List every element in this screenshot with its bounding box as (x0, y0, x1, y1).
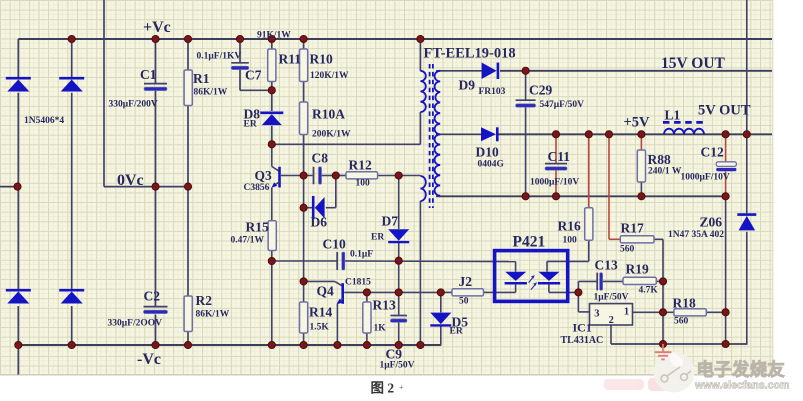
svg-text:C11: C11 (548, 149, 571, 164)
wire junction up to C13 row (577, 281, 579, 292)
wire junction down to IC1 ref pin (577, 292, 579, 312)
capacitor C29 547uF/50V (516, 99, 536, 101)
resistor R13 1K (363, 302, 371, 333)
wire P421 emitter lead (548, 285, 550, 293)
junction R15 / C10 row (268, 257, 275, 264)
svg-text:200K/1W: 200K/1W (312, 130, 351, 140)
junction top rail / transformer primary (417, 35, 424, 42)
diode D3 (1N5406) (6, 289, 31, 292)
junction top rail / R10 (300, 35, 307, 42)
capacitor C2 330uF/200V (144, 306, 168, 308)
svg-text:100: 100 (356, 179, 371, 189)
svg-text:5V OUT: 5V OUT (698, 103, 751, 119)
wire top rail to primary winding top (419, 39, 421, 71)
resistor R2 86K/1W (184, 296, 192, 332)
diode D4 (1N5406) (59, 289, 84, 292)
wire R17 to right vertical (654, 238, 663, 240)
wire D2 anode to D4 cathode (71, 93, 73, 290)
junction ground rail / right column (722, 340, 729, 347)
svg-text:C10: C10 (323, 237, 346, 252)
junction C7 / R11 bottom (268, 87, 275, 94)
junction R19 / right vertical (659, 278, 666, 285)
wire C2 to bottom rail (155, 315, 157, 346)
wire J2 row to C9 (398, 292, 400, 315)
resistor R19 4.7K (623, 277, 656, 284)
wire R1 to 0Vc (187, 106, 189, 187)
zener diode Z06 1N4735A (737, 213, 756, 216)
svg-text:R10A: R10A (312, 107, 345, 122)
svg-text:3: 3 (594, 308, 599, 319)
svg-text:IC1: IC1 (573, 321, 592, 335)
svg-text:560: 560 (674, 317, 689, 327)
svg-text:1000μF/10V: 1000μF/10V (681, 173, 730, 183)
wire R10 to R10A (303, 82, 305, 103)
svg-text:0.1μF: 0.1μF (350, 250, 373, 260)
IC U1 / IC1 TL431AC box (590, 304, 633, 325)
junction common rail / C12 (722, 193, 729, 200)
wire J2 to P421 (484, 291, 494, 293)
optocoupler P421 light arrows (529, 276, 534, 282)
capacitor C13 1uF/50V (596, 273, 598, 291)
wire to R18 (663, 311, 674, 313)
wire C10 row right to P421 LED anode (343, 260, 515, 263)
junction bottom rail / winding (417, 341, 424, 348)
svg-text:R16: R16 (558, 219, 581, 234)
capacitor C8 (313, 167, 315, 185)
wire C10 row junction to bottom rail (271, 261, 273, 345)
svg-text:C29: C29 (529, 83, 552, 98)
wire Q4 base from junction (304, 280, 335, 282)
junction bottom rail / C9 (395, 341, 402, 348)
wire R13 to bottom rail (366, 333, 368, 345)
wire R12 junction to D7 (398, 176, 400, 230)
wire R11 to D8 cathode (271, 82, 273, 112)
wire R16 bottom (588, 240, 590, 261)
wire D8 anode to node (271, 126, 273, 145)
junction bottom rail / Q4 emitter (334, 341, 341, 348)
junction common rail / C29 (522, 193, 529, 200)
svg-text:0Vc: 0Vc (117, 172, 144, 189)
svg-text:R2: R2 (196, 293, 213, 308)
svg-text:图 2: 图 2 (371, 381, 395, 396)
junction top rail / C7 (236, 35, 243, 42)
inductor L1 (663, 121, 706, 124)
svg-text:R15: R15 (246, 220, 269, 235)
wire R10A bottom through node row to Q3 base row (303, 135, 305, 176)
junction P421 out / C13 / IC1 (575, 289, 582, 296)
transformer T1 feedback winding (420, 176, 425, 201)
svg-text:ER: ER (244, 120, 257, 130)
junction +5V rail / C11 (552, 131, 559, 138)
wire 0Vc to C2 (155, 187, 157, 306)
resistor R10A 200K/1W (300, 102, 308, 135)
svg-text:C7: C7 (245, 68, 262, 83)
junction bottom rail / D1 column (15, 341, 22, 348)
capacitor C10 0.1uF (336, 252, 338, 270)
junction IC1 pin1 / R18 (659, 309, 666, 316)
svg-text:C1815: C1815 (345, 278, 371, 288)
wire D5 junction to J2 (441, 291, 452, 293)
wire to R13 top (366, 292, 368, 302)
wire +5V rail / 5V OUT line (498, 133, 772, 135)
svg-text:0404G: 0404G (478, 160, 505, 170)
wire P421 phototransistor collector lead (546, 261, 548, 271)
wire R16 to P421 phototransistor collector (547, 260, 589, 262)
junction bottom rail / R15 column (268, 341, 275, 348)
transformer T1 secondary windings (435, 71, 441, 196)
junction R18 / right column (722, 309, 729, 316)
junction top rail / R1 (184, 35, 191, 42)
wire to IC1 pin 3 (578, 311, 589, 313)
wire R19 to right vertical (656, 280, 663, 282)
diode D2 (1N5406) (59, 77, 84, 80)
wire junction to R12 (336, 175, 346, 177)
svg-text:1: 1 (624, 306, 629, 317)
wire top rail to R11 (271, 39, 273, 49)
wire C7 to R11 junction (239, 70, 241, 91)
svg-text:C12: C12 (701, 145, 724, 160)
wire R15 to C10 row (271, 251, 273, 262)
svg-text:P421: P421 (513, 234, 546, 251)
svg-text:1.5K: 1.5K (310, 323, 330, 333)
wire top rail to R1 (187, 39, 189, 70)
wire D1 anode to D3 cathode (17, 93, 19, 290)
wire C9 to bottom rail (398, 322, 400, 345)
diode D5 ER (430, 313, 451, 325)
wire R2 to bottom rail (187, 332, 189, 346)
wire P421 LED cathode lead (515, 285, 517, 293)
svg-text:R14: R14 (309, 305, 332, 320)
wire Q4 emitter to bottom rail (336, 304, 338, 346)
diode D8 ER (260, 112, 283, 115)
svg-text:R88: R88 (648, 152, 671, 167)
svg-text:1000μF/10V: 1000μF/10V (530, 178, 579, 188)
svg-text:50: 50 (459, 297, 469, 307)
svg-text:+: + (399, 383, 404, 392)
svg-text:TL431AC: TL431AC (561, 335, 604, 346)
wire +5V rail to C11 (red) (555, 134, 557, 163)
junction 0Vc / R1-R2 (184, 183, 191, 190)
resistor R17 560 (620, 236, 654, 243)
wire IC1 pin 2 to ground rail (610, 325, 612, 344)
diode D1 (1N5406) (6, 77, 31, 80)
wire R14 to bottom rail (303, 333, 305, 345)
junction ground rail / ground (659, 340, 666, 347)
diode D9 FR103 (482, 63, 497, 80)
junction AC stub / D1 column (14, 183, 21, 190)
wire D7 to C10 row (398, 243, 400, 261)
wire top rail to C1 (155, 39, 157, 83)
capacitor C12 1000uF/10V (716, 162, 736, 167)
svg-text:ER: ER (371, 233, 384, 243)
wire 0Vc to R2 (187, 187, 189, 296)
wire C11 to common rail (red) (555, 170, 557, 196)
wire C9 junction to D5 junction (399, 291, 441, 293)
svg-text:+5V: +5V (624, 115, 651, 131)
svg-text:C13: C13 (595, 258, 618, 273)
wire Q3 emitter to R15 (271, 188, 273, 221)
wire D8 node row to transformer primary bottom (272, 143, 421, 145)
junction top rail / D2 column (68, 35, 75, 42)
watermark pink smudge (604, 378, 674, 391)
capacitor C7 0.1uF/1KV (231, 62, 249, 64)
wire D4 anode to bottom rail (71, 306, 73, 345)
wire AC input stub at left edge (0, 186, 18, 188)
wire 5V OUT to C12 (red) (725, 134, 727, 161)
wire 0Vc vertical from top edge (103, 0, 105, 187)
junction 0Vc / C1-C2 (152, 183, 159, 190)
svg-text:C8: C8 (312, 151, 329, 166)
optocoupler P421 LED (505, 272, 526, 281)
wire D3 anode to bottom rail (17, 306, 19, 345)
wire Q4 collector to R13 junction (344, 291, 367, 293)
wire from top edge through rails to Z06 cathode (746, 0, 748, 213)
svg-text:R18: R18 (673, 296, 696, 311)
wire common rail down to R18 right and ground rail (725, 196, 727, 344)
svg-text:D6: D6 (311, 215, 328, 230)
svg-text:电子发烧友: 电子发烧友 (697, 360, 786, 380)
svg-text:R17: R17 (621, 221, 644, 236)
resistor R11 91K/1W (268, 49, 276, 82)
junction D8 anode node (268, 141, 275, 148)
wire Z06 anode to ground rail corner (746, 232, 748, 344)
wire feedback winding bottom to bottom rail (419, 201, 421, 345)
capacitor C9 1uF/50V (390, 315, 407, 317)
transistor Q4 C1815 (335, 282, 342, 286)
wire D5 to bottom rail corner (440, 326, 442, 345)
wire 15V OUT line (500, 70, 772, 72)
svg-text:0.47/1W: 0.47/1W (231, 236, 265, 246)
junction R12 / D7 / winding (395, 172, 402, 179)
wire node to Q3 collector (271, 144, 273, 166)
resistor R18 560 (674, 309, 706, 316)
junction bottom rail / R2 (184, 341, 191, 348)
wire top rail to D2 cathode (71, 39, 73, 78)
svg-text:Q4: Q4 (317, 284, 335, 299)
resistor R14 1.5K (300, 302, 308, 333)
wire IC1 pin 1 to R18 row (633, 311, 664, 313)
resistor R12 100 (346, 172, 378, 179)
svg-text:4.7K: 4.7K (639, 286, 659, 296)
resistor R88 240/1W (637, 150, 645, 182)
wire 0Vc row (104, 186, 188, 188)
wire top rail to D1 cathode (17, 39, 19, 78)
svg-text:Z06: Z06 (700, 215, 723, 230)
junction +5V rail / R88 (638, 131, 645, 138)
svg-text:D10: D10 (476, 145, 499, 160)
junction C8 / R12 / D6 (332, 172, 339, 179)
junction 5V OUT / Z06 (743, 131, 750, 138)
svg-text:240/1 W: 240/1 W (648, 167, 682, 177)
junction common rail / R88 (638, 193, 645, 200)
diode D7 ER (388, 229, 409, 241)
junction +5V rail / R16 (585, 131, 592, 138)
wire secondary common rail (436, 195, 726, 197)
wire D6 anode up to R12 junction (335, 176, 337, 208)
diode D6 (312, 196, 315, 220)
diode D10 0404G (481, 127, 496, 141)
wire 15V line to C29 (525, 71, 527, 100)
connector J2 50 (452, 289, 484, 296)
wire below bottom rail to grid edge (17, 345, 19, 375)
junction row / C9 (395, 289, 402, 296)
junction +5V rail / R17 (605, 131, 612, 138)
svg-text:C3856: C3856 (244, 183, 270, 193)
svg-text:Q3: Q3 (255, 168, 273, 183)
wire red corner to R17 (609, 238, 620, 240)
svg-text:0.1μF/1KV: 0.1μF/1KV (197, 52, 242, 62)
junction Q4 base / R14 (300, 278, 307, 285)
svg-text:www.elecfans.com: www.elecfans.com (694, 380, 789, 392)
wire Q4 base junction to R14 (303, 281, 305, 302)
wire +5V rail to R88 (red) (640, 134, 642, 150)
svg-text:330μF/2OOV: 330μF/2OOV (108, 319, 163, 329)
watermark logo circle (654, 352, 695, 393)
resistor R16 100 (585, 208, 593, 241)
wire transformer secondary1 top to D9 anode (436, 70, 482, 72)
svg-text:L1: L1 (665, 108, 681, 123)
wire R18 to right column (706, 311, 725, 313)
junction top rail / C1 (152, 35, 159, 42)
svg-text:86K/1W: 86K/1W (196, 310, 230, 320)
svg-text:15V OUT: 15V OUT (661, 55, 726, 72)
transformer T1 core (429, 64, 431, 208)
svg-text:560: 560 (620, 245, 635, 255)
svg-text:547μF/50V: 547μF/50V (540, 100, 585, 110)
svg-text:330μF/200V: 330μF/200V (109, 100, 158, 110)
resistor R10 120K/1W (300, 49, 308, 82)
wire D6 anode corner (326, 207, 336, 209)
svg-text:1K: 1K (374, 324, 387, 334)
junction 5V OUT / C12 (722, 131, 729, 138)
wire C1 to 0Vc (155, 91, 157, 187)
svg-text:D9: D9 (459, 78, 476, 93)
wire top rail to R10 (303, 39, 305, 49)
wire C8 to R12 junction (321, 175, 336, 177)
wire R88 to common rail (640, 182, 642, 196)
wire IC1 ground rail (611, 343, 748, 345)
svg-text:R1: R1 (193, 71, 210, 86)
junction bottom rail / R13 (363, 341, 370, 348)
wire Q3 base to C8 (281, 175, 313, 177)
wire right vertical R17-R19-R18-ground (662, 239, 664, 344)
svg-text:R19: R19 (626, 262, 649, 277)
wire +Vc top rail (18, 38, 772, 40)
wire C13 to R19 (602, 280, 623, 282)
junction Q4 collector / R13 (363, 289, 370, 296)
svg-text:1N5406*4: 1N5406*4 (24, 116, 64, 126)
wire +5V rail to R16 (red) (588, 134, 590, 207)
wire transformer tap to D10 anode (436, 133, 481, 135)
svg-text:R11: R11 (279, 52, 302, 67)
junction bottom rail / C2 (152, 341, 159, 348)
optocoupler P421 phototransistor (539, 272, 560, 281)
svg-text:FR103: FR103 (479, 87, 506, 97)
junction common rail / C11 (552, 193, 559, 200)
svg-text:86K/1W: 86K/1W (194, 88, 228, 98)
ground symbol (662, 344, 664, 352)
wire P421 LED anode lead down (515, 262, 517, 272)
svg-text:R12: R12 (349, 158, 372, 173)
transformer T1 FT-EEL19-018 primary winding (420, 71, 425, 112)
wire P421 emitter out to junction (549, 291, 579, 293)
junction top rail / R11 (268, 35, 275, 42)
junction row / D5 (437, 289, 444, 296)
wire primary winding bottom lead (419, 112, 421, 144)
wire -Vc bottom rail (19, 344, 441, 346)
junction 15V line / C29 (522, 67, 529, 74)
wire junction to D6 cathode (304, 207, 313, 209)
svg-text:R13: R13 (373, 298, 396, 313)
svg-text:1N47 35A 402: 1N47 35A 402 (668, 230, 724, 240)
junction bottom rail / R14 (300, 341, 307, 348)
svg-text:C2: C2 (144, 289, 161, 304)
svg-text:120K/1W: 120K/1W (310, 71, 349, 81)
resistor R15 0.47/1W (268, 221, 276, 251)
resistor R1 86K/1W (184, 70, 192, 106)
junction bottom rail / D2 column (68, 341, 75, 348)
svg-text:100: 100 (563, 236, 578, 246)
svg-text:1μF/50V: 1μF/50V (380, 361, 415, 371)
wire C10 row to J2 row (398, 261, 400, 293)
svg-text:2: 2 (609, 315, 614, 326)
wire C13 row left (578, 280, 596, 282)
svg-text:+Vc: +Vc (143, 19, 171, 36)
junction D6 cathode node (300, 204, 307, 211)
svg-text:ER: ER (450, 327, 463, 337)
wire +5V rail to R17 (red) (608, 134, 610, 239)
svg-text:FT-EEL19-018: FT-EEL19-018 (424, 46, 516, 62)
wire R12 to feedback winding (378, 175, 421, 177)
wire LED cathode to box edge (493, 291, 516, 293)
wire C29 to common rail crossing 5V rail (525, 107, 527, 196)
capacitor C11 1000uF/10V (545, 163, 567, 165)
wire C7 bottom row to R11 bottom (240, 89, 272, 91)
wire C12 to common rail (red) (725, 171, 727, 196)
junction D7 / C10 row (395, 257, 402, 264)
optocoupler P421 box (495, 251, 568, 302)
svg-text:1μF/50V: 1μF/50V (594, 293, 629, 303)
transistor Q3 C3856 (272, 167, 279, 171)
svg-text:91K/1W: 91K/1W (257, 31, 291, 41)
svg-text:C9: C9 (386, 347, 403, 362)
wire R13 junction to C9 junction (367, 291, 399, 293)
svg-text:D7: D7 (382, 214, 399, 229)
wire top rail to C7 (239, 39, 241, 62)
wire junction to D5 (440, 292, 442, 312)
wire C10 row left (272, 260, 337, 262)
svg-text:R10: R10 (310, 52, 333, 67)
capacitor C1 330uF/200V (144, 83, 167, 85)
svg-text:J2: J2 (459, 274, 473, 289)
svg-text:C1: C1 (140, 67, 157, 82)
svg-text:-Vc: -Vc (137, 351, 161, 368)
wire Q3 base junction down to Q4 base junction (303, 176, 305, 282)
junction Q3 base / C8 (300, 172, 307, 179)
